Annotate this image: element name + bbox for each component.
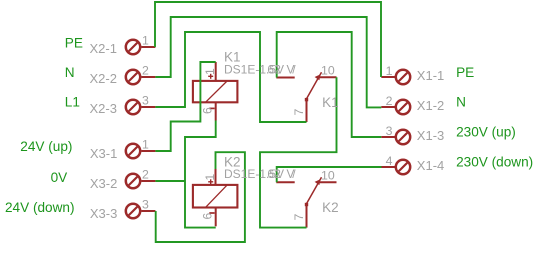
relay coil K1 [193,62,238,121]
wire net 0V: X3-2 branch [155,180,185,182]
svg-text:N: N [456,94,466,109]
svg-text:230V (down): 230V (down) [456,154,533,169]
svg-text:X2-3: X2-3 [90,101,117,116]
svg-text:6: 6 [201,107,215,114]
svg-text:X2-1: X2-1 [90,41,117,56]
wire net PE: X2-1 to X1-1 [155,2,381,77]
terminal X3-3 [126,204,156,218]
svg-text:2: 2 [274,63,281,77]
coil K2 polarity minus [209,212,214,214]
svg-text:X3-3: X3-3 [90,206,117,221]
svg-text:N: N [65,65,75,80]
wire net 230V(up): K1 throw contact to X1-3 [277,32,382,137]
svg-text:1: 1 [203,174,217,181]
terminal X2-3 [126,100,156,114]
svg-text:0V: 0V [51,170,68,185]
relay coil K2 [193,169,238,226]
terminal X2-1 [126,40,156,54]
relay contact K1 [276,72,336,122]
svg-text:X1-2: X1-2 [417,98,444,113]
svg-text:24V (up): 24V (up) [20,139,72,154]
svg-text:2: 2 [274,167,281,181]
wire net 0V: K1 coil pin 6 to X3-2 to K2 coil pin 6 [185,121,216,228]
overlapping value glyphs (K2) [267,167,296,181]
svg-text:10: 10 [321,63,335,77]
svg-text:X3-2: X3-2 [90,176,117,191]
wire net L1: X2-3 to K1 common pin 7 [155,32,306,122]
contact K2 arrowhead [315,179,321,185]
svg-text:6: 6 [201,213,215,220]
svg-text:1: 1 [142,33,149,47]
svg-text:X1-4: X1-4 [417,158,444,173]
svg-text:7: 7 [292,109,306,116]
svg-text:PE: PE [65,36,83,51]
svg-text:4: 4 [386,154,393,168]
svg-text:3: 3 [142,93,149,107]
svg-text:3: 3 [386,124,393,138]
wire net 24V(up): X3-1 to K1 coil pin +1 [155,62,215,151]
svg-text:3: 3 [142,197,149,211]
svg-text:1: 1 [386,64,393,78]
relay contact K2 [276,177,336,227]
svg-text:X3-1: X3-1 [90,146,117,161]
svg-text:7: 7 [292,214,306,221]
svg-text:10: 10 [321,168,335,182]
wire net 230V(down): K2 throw contact to X1-4 [277,167,382,182]
svg-text:K2: K2 [322,200,339,215]
svg-text:2: 2 [142,63,149,77]
svg-text:1: 1 [142,137,149,151]
coil K1 polarity minus [209,107,214,109]
terminal X1-1 [381,70,410,84]
terminal X1-2 [381,100,410,114]
contact K1 pivot dot [305,98,308,101]
coil K2 polarity plus [208,179,213,184]
svg-text:24V (down): 24V (down) [5,200,75,215]
svg-text:1: 1 [203,68,217,75]
svg-text:X1-3: X1-3 [417,128,444,143]
svg-text:X1-1: X1-1 [417,68,444,83]
wire net K1-out: K1 pin 10 to K2 common pin 7 [260,77,337,227]
terminal X1-4 [382,160,411,174]
svg-text:230V (up): 230V (up) [456,124,516,139]
svg-text:PE: PE [456,65,474,80]
svg-text:X2-2: X2-2 [90,71,117,86]
overlapping value glyphs (K1) [267,63,296,77]
svg-text:K1: K1 [322,95,339,110]
terminal X1-3 [381,130,410,144]
terminal X3-1 [126,144,156,158]
svg-text:L1: L1 [65,95,80,110]
contact K2 pivot dot [305,203,308,206]
coil K1 polarity plus [208,74,213,79]
terminal X3-2 [126,174,156,188]
terminal X2-2 [126,70,156,84]
svg-text:2: 2 [142,167,149,181]
contact K1 arrowhead [315,74,321,80]
wire net 24V(down): X3-3 to K2 coil pin +1 [156,152,245,242]
wire net N: X2-2 to X1-2 [155,17,381,107]
svg-text:2: 2 [386,94,393,108]
